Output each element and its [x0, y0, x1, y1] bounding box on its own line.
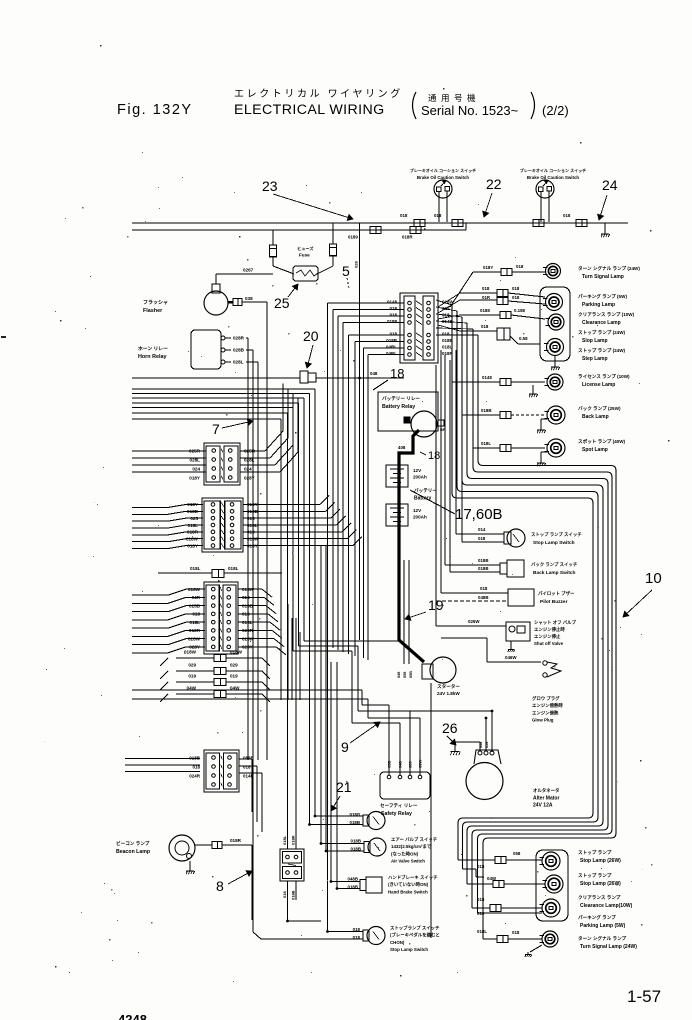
svg-text:23: 23	[262, 178, 278, 194]
svg-text:エアー バルブ スイッチ: エアー バルブ スイッチ	[391, 836, 438, 843]
svg-text:20: 20	[303, 328, 319, 344]
svg-text:バック ランプ (25W): バック ランプ (25W)	[578, 405, 621, 412]
svg-text:4248: 4248	[118, 1012, 147, 1020]
svg-text:05W: 05W	[418, 760, 423, 768]
svg-text:019: 019	[188, 674, 196, 679]
svg-text:018W: 018W	[186, 537, 199, 542]
svg-text:018R: 018R	[189, 628, 201, 633]
svg-text:018L: 018L	[282, 835, 287, 845]
svg-text:018: 018	[389, 332, 397, 337]
svg-text:(ブレーキペダルを踏むと: (ブレーキペダルを踏むと	[390, 932, 440, 939]
svg-text:Shut off Valve: Shut off Valve	[534, 641, 564, 646]
svg-text:0.188: 0.188	[514, 308, 526, 313]
svg-text:018R: 018R	[402, 235, 413, 240]
svg-text:クリアランス ランプ: クリアランス ランプ	[578, 894, 621, 901]
svg-text:018: 018	[512, 930, 520, 935]
svg-text:018Y: 018Y	[187, 543, 198, 548]
svg-text:CHON): CHON)	[390, 940, 405, 945]
svg-text:018: 018	[512, 286, 520, 291]
svg-text:5: 5	[342, 263, 350, 279]
svg-text:ストップ ランプ (24W): ストップ ランプ (24W)	[578, 347, 626, 354]
svg-text:0.58: 0.58	[519, 336, 528, 341]
svg-text:エンジン傍熱: エンジン傍熱	[532, 709, 559, 716]
svg-text:Parking Lamp: Parking Lamp	[582, 302, 615, 308]
svg-text:24V 1.8kW: 24V 1.8kW	[437, 691, 460, 696]
svg-text:024: 024	[244, 466, 252, 471]
svg-text:048B: 048B	[478, 595, 489, 600]
svg-text:ヒューズ: ヒューズ	[297, 245, 314, 252]
svg-text:029: 029	[188, 663, 196, 668]
svg-text:ブレーキオイル コーション スイッチ: ブレーキオイル コーション スイッチ	[520, 167, 586, 173]
svg-text:200Ah: 200Ah	[413, 475, 427, 480]
svg-text:04W: 04W	[487, 876, 497, 881]
svg-text:018R: 018R	[291, 835, 296, 845]
svg-text:038: 038	[245, 296, 253, 301]
svg-text:Parking Lamp (5W): Parking Lamp (5W)	[580, 923, 626, 929]
svg-text:Brake Oil Caution Switch: Brake Oil Caution Switch	[527, 175, 580, 180]
svg-text:エレクトリカル ワイヤリング: エレクトリカル ワイヤリング	[234, 87, 403, 100]
svg-text:Battery Relay: Battery Relay	[382, 404, 415, 410]
svg-text:24: 24	[602, 177, 618, 193]
svg-text:スポット ランプ (40W): スポット ランプ (40W)	[578, 438, 626, 445]
svg-text:018L: 018L	[481, 441, 491, 446]
svg-text:028L: 028L	[190, 457, 201, 462]
svg-text:018Y: 018Y	[483, 265, 493, 270]
svg-text:Safety Relay: Safety Relay	[381, 811, 412, 817]
svg-text:018L: 018L	[477, 929, 487, 934]
svg-text:028W: 028W	[188, 636, 201, 641]
svg-text:048: 048	[370, 371, 378, 376]
svg-text:8: 8	[216, 878, 224, 894]
svg-text:046W: 046W	[505, 655, 517, 660]
svg-text:018R: 018R	[230, 838, 242, 843]
svg-text:018W: 018W	[188, 587, 201, 592]
svg-text:Fuse: Fuse	[299, 253, 310, 258]
svg-text:ELECTRICAL WIRING: ELECTRICAL WIRING	[234, 102, 385, 118]
svg-text:025R: 025R	[189, 448, 201, 453]
svg-text:018: 018	[477, 864, 485, 869]
svg-text:Alter Mator: Alter Mator	[533, 796, 559, 802]
svg-text:018Y: 018Y	[187, 502, 198, 507]
svg-text:Beacon Lamp: Beacon Lamp	[116, 849, 150, 855]
svg-text:018R: 018R	[187, 530, 199, 535]
svg-text:Slop Lamp: Slop Lamp	[582, 338, 608, 344]
svg-text:18: 18	[428, 450, 440, 462]
svg-text:059: 059	[408, 761, 413, 768]
svg-text:Glow Plug: Glow Plug	[532, 718, 554, 723]
svg-text:200Ah: 200Ah	[413, 515, 427, 520]
svg-text:Flasher: Flasher	[143, 308, 163, 314]
svg-text:ハンドブレーキ スイッチ: ハンドブレーキ スイッチ	[388, 874, 438, 881]
svg-text:ターン シグナル ランプ (24W): ターン シグナル ランプ (24W)	[578, 265, 640, 272]
svg-text:018: 018	[478, 536, 486, 541]
svg-text:018B: 018B	[386, 338, 398, 343]
svg-text:408: 408	[398, 445, 406, 450]
svg-text:Stop Lamp (26W): Stop Lamp (26W)	[580, 858, 621, 864]
svg-text:Turn Signal Lamp: Turn Signal Lamp	[582, 274, 624, 280]
svg-text:ターン シグナル ランプ: ターン シグナル ランプ	[578, 935, 627, 942]
svg-text:Air Valve Switch: Air Valve Switch	[391, 859, 425, 864]
svg-text:7: 7	[212, 421, 220, 437]
svg-text:048B: 048B	[348, 877, 359, 882]
svg-text:クリアランス ランプ (10W): クリアランス ランプ (10W)	[578, 311, 635, 318]
svg-text:026W: 026W	[468, 619, 480, 624]
svg-text:028R: 028R	[233, 336, 245, 341]
svg-text:04RL: 04RL	[386, 351, 397, 356]
svg-text:048: 048	[397, 672, 401, 678]
svg-text:Clearance Lamp(10W): Clearance Lamp(10W)	[580, 903, 633, 909]
svg-text:018: 018	[434, 213, 442, 218]
svg-text:12V: 12V	[413, 508, 422, 513]
svg-text:018B: 018B	[481, 408, 492, 413]
svg-text:26: 26	[442, 720, 458, 736]
svg-text:04RL: 04RL	[386, 345, 397, 350]
svg-text:018: 018	[480, 586, 488, 591]
svg-text:ホーン リレー: ホーン リレー	[138, 345, 168, 352]
svg-text:0188: 0188	[387, 319, 398, 324]
svg-text:018B: 018B	[187, 509, 199, 514]
svg-text:024: 024	[192, 466, 200, 471]
svg-text:025B: 025B	[189, 603, 201, 608]
svg-text:バック ランプ スイッチ: バック ランプ スイッチ	[531, 561, 578, 568]
svg-text:エンジン停止時: エンジン停止時	[534, 626, 565, 633]
svg-text:018: 018	[282, 891, 287, 898]
svg-text:018: 018	[400, 213, 408, 218]
svg-text:01R: 01R	[482, 295, 491, 300]
svg-text:ビーコン ランプ: ビーコン ランプ	[116, 840, 150, 847]
svg-text:018: 018	[512, 295, 520, 300]
svg-text:パイロット ブザー: パイロット ブザー	[538, 590, 575, 597]
svg-text:014B: 014B	[243, 773, 255, 778]
svg-text:058: 058	[403, 672, 407, 678]
svg-text:Fig. 132Y: Fig. 132Y	[117, 102, 193, 118]
svg-text:ブレーキオイル コーション スイッチ: ブレーキオイル コーション スイッチ	[410, 167, 476, 173]
svg-text:018B: 018B	[478, 558, 489, 563]
svg-text:086B: 086B	[243, 755, 255, 760]
svg-text:フラッシャ: フラッシャ	[143, 300, 168, 306]
svg-text:018: 018	[442, 332, 450, 337]
svg-text:05B: 05B	[409, 671, 413, 678]
svg-text:0148: 0148	[387, 300, 398, 305]
svg-text:18: 18	[390, 366, 404, 381]
svg-text:014: 014	[478, 527, 486, 532]
svg-text:019: 019	[230, 674, 238, 679]
svg-text:オルタネータ: オルタネータ	[533, 787, 559, 794]
svg-text:スターター: スターター	[437, 683, 460, 690]
svg-text:018: 018	[192, 764, 200, 769]
svg-text:通用号機: 通用号機	[428, 93, 480, 103]
svg-text:028Y: 028Y	[244, 475, 255, 480]
svg-text:018B: 018B	[350, 820, 361, 825]
svg-text:1-57: 1-57	[627, 987, 661, 1006]
svg-text:048: 048	[398, 761, 403, 768]
svg-text:エンジン傍熱時: エンジン傍熱時	[532, 702, 563, 709]
svg-text:018B: 018B	[189, 755, 201, 760]
svg-text:Turn Signal Lamp (24W): Turn Signal Lamp (24W)	[580, 944, 637, 950]
svg-text:018L: 018L	[190, 620, 201, 625]
svg-text:24V 12A: 24V 12A	[533, 803, 553, 809]
svg-text:Hand Brake Switch: Hand Brake Switch	[388, 889, 428, 894]
svg-text:Stop Lamp Switch: Stop Lamp Switch	[533, 540, 575, 546]
svg-text:025: 025	[190, 516, 198, 521]
svg-text:018Y: 018Y	[189, 475, 200, 480]
svg-text:ストップ ランプ スイッチ: ストップ ランプ スイッチ	[531, 531, 582, 538]
svg-text:018L: 018L	[442, 345, 453, 350]
svg-text:018: 018	[389, 306, 397, 311]
svg-text:Brake Oil Caution Switch: Brake Oil Caution Switch	[417, 175, 470, 180]
svg-text:018L: 018L	[188, 523, 199, 528]
svg-text:(きいていない時ON): (きいていない時ON)	[388, 881, 429, 888]
svg-text:018: 018	[477, 897, 485, 902]
svg-text:018W: 018W	[184, 650, 197, 655]
svg-text:エンジン停止: エンジン停止	[534, 633, 561, 640]
svg-text:ストップ ランプ: ストップ ランプ	[578, 872, 612, 879]
svg-text:024R: 024R	[189, 773, 201, 778]
svg-text:ライセンス ランプ (10W): ライセンス ランプ (10W)	[578, 373, 630, 380]
svg-text:(なった時ON): (なった時ON)	[391, 850, 419, 857]
svg-text:Spot Lamp: Spot Lamp	[582, 447, 608, 453]
svg-text:0188: 0188	[480, 308, 490, 313]
svg-text:10: 10	[645, 570, 662, 587]
svg-text:ストップ ランプ (24W): ストップ ランプ (24W)	[578, 329, 626, 336]
svg-text:028L: 028L	[233, 360, 244, 365]
svg-text:0267: 0267	[243, 268, 254, 273]
svg-text:04R: 04R	[192, 595, 201, 600]
svg-text:License Lamp: License Lamp	[582, 382, 615, 388]
svg-text:0148: 0148	[482, 375, 492, 380]
svg-text:Pilot Buzzer: Pilot Buzzer	[540, 599, 568, 605]
svg-text:028B: 028B	[233, 348, 245, 353]
svg-text:パーキング ランプ (5W): パーキング ランプ (5W)	[578, 293, 627, 300]
svg-text:Stop Lamp Switch: Stop Lamp Switch	[390, 947, 428, 952]
svg-text:029: 029	[230, 663, 238, 668]
svg-text:Horn Relay: Horn Relay	[138, 354, 166, 360]
svg-text:05B: 05B	[387, 761, 392, 768]
svg-text:018: 018	[481, 324, 489, 329]
svg-text:9: 9	[341, 739, 349, 755]
svg-text:018W: 018W	[230, 650, 243, 655]
svg-text:018B: 018B	[291, 890, 296, 900]
svg-text:21: 21	[336, 779, 352, 795]
svg-text:028: 028	[354, 261, 359, 268]
svg-text:0189: 0189	[348, 235, 358, 240]
svg-text:Serial No. 1523~: Serial No. 1523~	[421, 103, 519, 118]
svg-text:パーキング ランプ: パーキング ランプ	[578, 914, 616, 921]
svg-text:Step Lamp: Step Lamp	[582, 356, 608, 362]
svg-text:Clearance Lamp: Clearance Lamp	[582, 320, 621, 326]
svg-text:Back Lamp Switch: Back Lamp Switch	[533, 570, 575, 576]
svg-text:25: 25	[274, 295, 290, 311]
svg-text:Back Lamp: Back Lamp	[582, 414, 609, 420]
svg-text:12V: 12V	[413, 468, 422, 473]
svg-text:018L: 018L	[228, 566, 239, 571]
svg-text:シャット オフ バルブ: シャット オフ バルブ	[534, 619, 577, 626]
svg-text:018: 018	[243, 764, 251, 769]
svg-text:018B: 018B	[478, 566, 489, 571]
svg-text:018B: 018B	[351, 839, 362, 844]
svg-text:018: 018	[482, 286, 490, 291]
svg-text:グロウ プラグ: グロウ プラグ	[532, 695, 560, 702]
svg-text:ストップ ランプ: ストップ ランプ	[578, 849, 612, 856]
svg-text:22: 22	[486, 176, 502, 192]
svg-text:058: 058	[513, 851, 521, 856]
svg-text:018: 018	[563, 213, 571, 218]
svg-text:018: 018	[192, 612, 200, 617]
svg-text:(2/2): (2/2)	[542, 103, 569, 118]
svg-text:018: 018	[516, 264, 524, 269]
svg-text:ストップランプ スイッチ: ストップランプ スイッチ	[390, 925, 440, 932]
svg-text:018: 018	[389, 313, 397, 318]
svg-text:018L: 018L	[190, 566, 201, 571]
